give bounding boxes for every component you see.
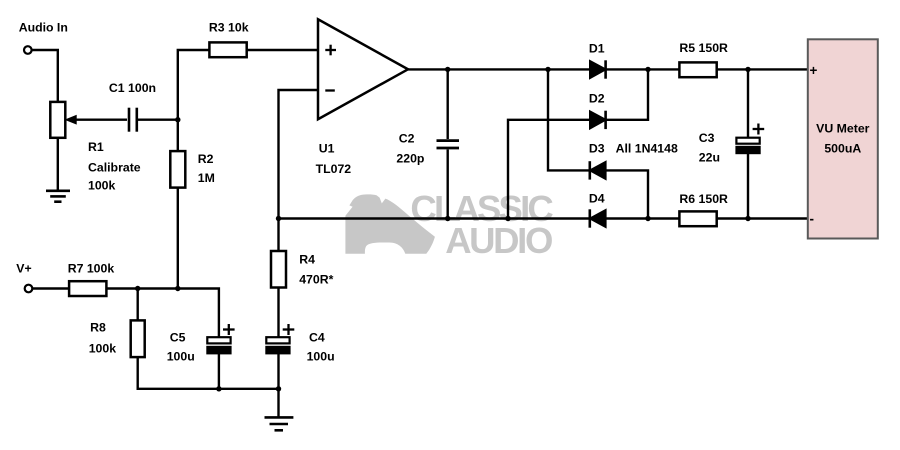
potentiometer R1 body [50,102,65,138]
ground bottom center [265,416,294,419]
capacitor C5 bottom plate [207,347,230,354]
svg-text:100k: 100k [89,342,117,356]
svg-text:VU Meter: VU Meter [816,122,870,136]
capacitor C2 plates [437,139,460,142]
op-amp U1 triangle [318,19,408,119]
C5 plus [223,328,235,330]
svg-text:220p: 220p [396,151,424,165]
svg-text:R2: R2 [198,152,214,166]
wire R8 top [136,289,138,321]
svg-text:AUDIO: AUDIO [445,220,552,261]
svg-text:D3: D3 [589,141,605,155]
diode D3 [590,162,606,179]
wire R3 to op-amp + [247,49,318,51]
svg-text:C1 100n: C1 100n [109,81,156,95]
svg-text:100u: 100u [307,349,335,363]
svg-text:100k: 100k [88,179,116,193]
watermark logo (gray bird silhouette) [345,194,435,253]
svg-text:C2: C2 [399,131,415,145]
node D2 branch bottom [505,216,510,221]
node D1/D2 cathodes [645,67,650,72]
op-amp + symbol [325,49,336,51]
wire C3 vertical [747,69,749,137]
svg-text:D1: D1 [589,41,605,55]
diode D4 [590,210,606,227]
V+ terminal [25,285,33,293]
node feedback/R4 [276,216,281,221]
svg-text:R1: R1 [88,140,104,154]
resistor R7 body [69,281,106,296]
node output/C2 top [445,67,450,72]
svg-text:D4: D4 [589,191,605,205]
wire R4 to C4 [277,288,279,338]
svg-text:+: + [810,63,818,78]
svg-text:TL072: TL072 [316,162,352,176]
node C2 bottom [445,216,450,221]
resistor R8 body [131,320,145,357]
svg-text:R3 10k: R3 10k [209,21,249,35]
svg-text:R6 150R: R6 150R [679,192,728,206]
node R6/C3 bottom [745,216,750,221]
resistor R4 body [271,251,286,288]
diode D1 [590,61,606,78]
capacitor C3 bottom plate [736,147,759,153]
resistor R2 body [170,151,185,188]
svg-text:100u: 100u [167,349,195,363]
svg-text:500uA: 500uA [824,142,861,156]
resistor R6 body [679,211,716,226]
node C5 gnd [216,386,221,391]
wire R4 top [277,219,279,252]
svg-text:V+: V+ [16,262,31,276]
VU meter box [808,39,878,238]
capacitor C3 top plate [736,138,759,144]
node D3/D4 [645,216,650,221]
svg-text:All 1N4148: All 1N4148 [616,141,678,155]
svg-text:C5: C5 [170,330,186,344]
svg-text:1M: 1M [198,171,215,185]
C4 plus [283,328,295,330]
capacitor C4 bottom plate [266,347,289,354]
svg-text:R8: R8 [90,321,106,335]
svg-text:D2: D2 [589,92,605,106]
wire D2 cathode up to output rail [606,69,648,119]
input terminal Audio In [24,46,32,54]
svg-text:-: - [810,212,815,227]
node R2 bottom [175,286,180,291]
node R5/C3 top [745,67,750,72]
vertical node wire (C1/R2/R3) [178,50,210,289]
svg-text:22u: 22u [699,151,720,165]
capacitor C5 top plate [207,337,230,343]
node R7/R8 [135,286,140,291]
op-amp - symbol [325,89,335,91]
wire V+ to R7 [33,287,70,289]
diode D2 [590,111,606,128]
svg-text:C3: C3 [699,131,715,145]
node C4 gnd [276,386,281,391]
wire R1 bottom to ground [57,138,59,191]
svg-text:U1: U1 [319,141,335,155]
svg-text:R5 150R: R5 150R [679,41,728,55]
node D3 branch top [545,67,550,72]
bottom rail left segment [279,217,590,219]
wire C4 to ground node [277,353,279,417]
svg-text:C4: C4 [309,330,325,344]
svg-text:Audio In: Audio In [19,20,68,34]
resistor R3 body [209,42,246,57]
wire D3 cathode branch [548,69,589,170]
output wire op-amp to VU + [408,68,590,70]
wire terminal to corner [32,50,58,102]
capacitor C4 top plate [266,337,289,343]
wire D2 anode branch [508,120,590,219]
wire C5 to gnd rail [218,353,220,388]
C3 plus [753,128,765,130]
wire D3 anode down to bottom rail [606,170,648,218]
V+ rail to C5 [106,289,218,338]
wiper arrowhead [66,116,76,124]
node C1/R2/R3 [175,117,180,122]
wiper wire to C1 [75,118,128,120]
wire C2 vertical [447,69,449,139]
svg-text:R7 100k: R7 100k [68,262,115,276]
wire inverting input / feedback [279,90,319,219]
svg-text:Calibrate: Calibrate [88,160,141,174]
bottom rail right segment [606,217,808,219]
svg-text:R4: R4 [299,253,315,267]
wire R8 bottom to gnd rail [138,357,279,389]
wire C1 to node [138,118,178,120]
resistor R5 body [679,62,716,77]
capacitor C1 plates [128,108,131,132]
ground under R1 [46,190,70,193]
svg-text:470R*: 470R* [299,273,333,287]
